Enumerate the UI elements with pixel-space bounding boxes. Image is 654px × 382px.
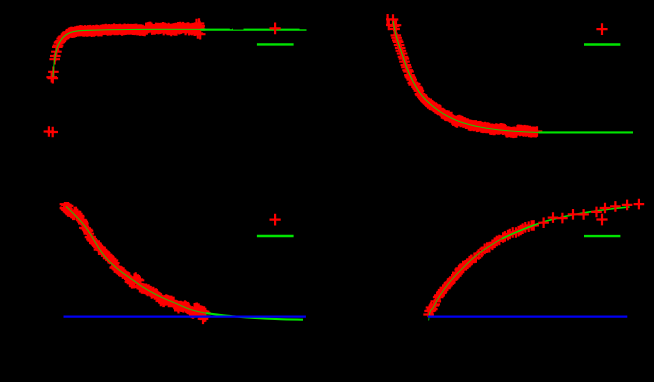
subplot2 fit curve (green) xyxy=(393,21,633,133)
subplot2 legend line sample xyxy=(584,43,620,45)
subplot1 fit curve tail (green, outside data band) xyxy=(201,29,307,31)
subplot2 data points (red plus markers) xyxy=(382,14,542,138)
subplot2 fit curve tail (green, outside data band) xyxy=(539,131,634,133)
subplot4 fit curve tail (green, outside dense band) xyxy=(502,207,630,239)
subplot3 clipped left data dot xyxy=(60,207,62,209)
subplot3 fit curve tail (green, outside data band) xyxy=(206,313,303,320)
subplot1 fit curve (green) xyxy=(53,29,307,77)
subplot4 blue constant line xyxy=(428,315,627,317)
subplot3 legend line sample xyxy=(257,235,294,237)
subplot2 legend point sample xyxy=(596,23,607,35)
black tick-label text overlapping subplot1 curve xyxy=(230,28,232,29)
subplot3 data points (red plus markers) xyxy=(60,199,211,324)
subplot1 data points (red plus markers) xyxy=(44,18,206,137)
subplot4 sparse data points (red plus markers) xyxy=(538,199,644,228)
subplot4 data points (red plus markers) xyxy=(423,220,539,326)
subplot4 legend point sample xyxy=(596,214,607,226)
subplot3 legend point sample xyxy=(270,214,281,226)
subplot3 blue constant line xyxy=(64,315,306,317)
subplot4 fit curve (green) xyxy=(429,207,630,321)
subplot1 legend line sample xyxy=(257,43,294,45)
subplot1 legend point sample xyxy=(270,23,281,35)
subplot4 legend line sample xyxy=(584,235,620,237)
subplot3 fit curve (green) xyxy=(66,206,303,319)
